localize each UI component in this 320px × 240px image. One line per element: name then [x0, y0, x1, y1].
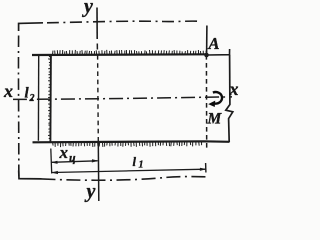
vertical line above point A: [206, 26, 208, 56]
dash-dot frame left line: [17, 36, 19, 179]
svg-text:x: x: [59, 143, 69, 162]
dash-dot frame top line with left corner bracket: [19, 23, 43, 31]
right bracket vertical with zigzag break: [226, 55, 233, 142]
y-axis top solid segment: [96, 8, 98, 40]
extension tick below plate bottom-left corner: [50, 149, 53, 174]
svg-text:x: x: [3, 81, 13, 101]
dash-dot frame bottom line with left corner: [19, 171, 42, 179]
y-axis dashed inside plate: [97, 55, 100, 142]
right extension tick for l1: [205, 163, 207, 173]
svg-text:2: 2: [29, 93, 35, 104]
x-axis centerline dash-dot: [13, 97, 232, 100]
svg-text:x: x: [229, 79, 239, 99]
plate left edge hatching: [48, 56, 51, 138]
plate bottom edge hatching: [53, 142, 202, 147]
plate top edge hatching: [53, 50, 207, 55]
corner point A dot: [204, 53, 209, 58]
plate left edge: [49, 55, 52, 143]
svg-text:1: 1: [139, 160, 144, 171]
svg-text:y: y: [85, 181, 96, 203]
svg-text:M: M: [207, 111, 223, 128]
dimension line l1 with arrowheads: [52, 169, 206, 172]
y-axis bottom solid segment: [97, 142, 100, 201]
dimension line x_c with arrowheads: [52, 161, 98, 163]
svg-text:l: l: [133, 155, 137, 169]
moment M arc arrow: [213, 92, 222, 104]
right bracket top horizontal with up tick: [207, 49, 230, 56]
svg-text:A: A: [208, 34, 220, 53]
plate top edge: [32, 53, 208, 56]
y-axis short dash above plate: [96, 44, 98, 50]
svg-text:y: y: [82, 0, 93, 18]
plate bottom edge: [33, 141, 230, 142]
dimension line l2 (left vertical): [37, 56, 39, 141]
plate right edge dashed: [205, 55, 207, 150]
svg-text:ц: ц: [69, 151, 76, 165]
